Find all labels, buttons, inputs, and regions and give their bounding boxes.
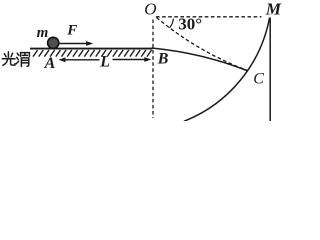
trajectory curve B to C bbox=[152, 48, 249, 71]
label 光滑 (frictionless surface, drawn as strokes) bbox=[2, 52, 29, 67]
svg-text:30°: 30° bbox=[178, 15, 202, 34]
ground line A to B bbox=[30, 48, 153, 50]
svg-text:M: M bbox=[265, 0, 282, 18]
vertical wall line below M bbox=[269, 18, 271, 122]
angle arc at O bbox=[170, 19, 174, 28]
distance arrow L, right half bbox=[113, 59, 147, 61]
svg-text:O: O bbox=[144, 0, 156, 18]
svg-text:A: A bbox=[44, 55, 56, 72]
svg-text:L: L bbox=[99, 54, 110, 71]
svg-text:B: B bbox=[157, 51, 169, 68]
force arrow F bbox=[60, 43, 88, 45]
dashed vertical line below O bbox=[152, 20, 154, 119]
ball m bbox=[48, 37, 59, 48]
ground hatching bbox=[33, 50, 152, 57]
distance arrow L, left half bbox=[62, 59, 100, 61]
dashed line O to C at 30 degrees bbox=[157, 18, 248, 71]
circular track arc through C bbox=[184, 18, 270, 122]
dashed horizontal line O to M bbox=[156, 16, 262, 18]
svg-text:m: m bbox=[37, 25, 49, 41]
svg-text:F: F bbox=[66, 23, 77, 39]
svg-text:C: C bbox=[253, 71, 264, 88]
